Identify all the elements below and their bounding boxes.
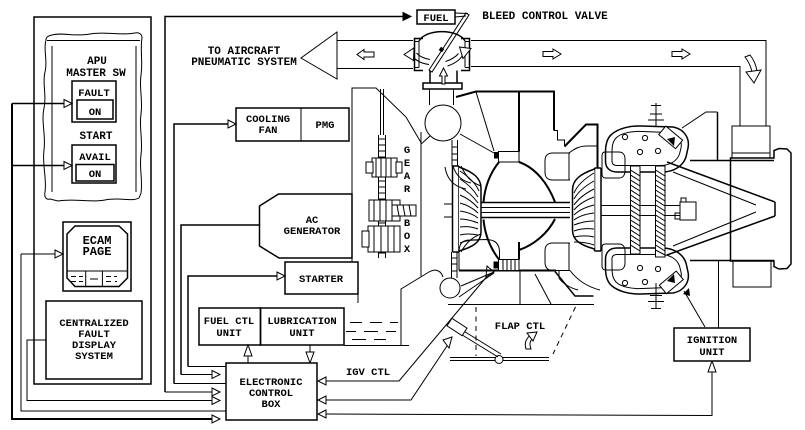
turbine section top casing: [690, 112, 774, 161]
gear train rack: [379, 135, 386, 258]
wire ECB to AC generator: [181, 225, 260, 379]
lower cap: [545, 243, 570, 271]
svg-text:ON: ON: [89, 169, 102, 181]
turbine disc 2: [656, 166, 666, 257]
valve curved arrow right: [446, 47, 472, 66]
duct end box: [732, 126, 770, 153]
svg-text:AVAIL: AVAIL: [79, 152, 111, 164]
upper shaft column: [452, 140, 458, 166]
turbine disc 1: [631, 166, 641, 254]
FUEL CTL UNIT box: [199, 308, 261, 345]
ECB wire from fuel ctl: [244, 345, 252, 363]
svg-text:PMG: PMG: [316, 120, 335, 132]
svg-text:UNIT: UNIT: [216, 328, 241, 340]
drain line: [519, 271, 521, 306]
lower pillar: [518, 242, 520, 260]
diffuser lower wall: [559, 271, 600, 291]
oil sump dashes: [344, 318, 409, 346]
lower fuel nozzle: [659, 271, 705, 327]
flap actuator head: [447, 318, 467, 335]
engine top casing: [456, 92, 598, 169]
svg-text:LUBRICATION: LUBRICATION: [267, 316, 336, 328]
diffuser scroll upper: [602, 152, 625, 178]
svg-text:FAULT: FAULT: [78, 88, 110, 100]
wire ECB to starter: [188, 272, 285, 367]
impeller 1 disc: [453, 166, 460, 252]
FAULT switch: [72, 81, 116, 122]
panel outer box: [34, 17, 151, 384]
APU MASTER SW label: [66, 56, 126, 80]
valve lever: [429, 13, 469, 72]
svg-text:B: B: [404, 218, 411, 230]
lower bearing box IGV: [499, 260, 520, 271]
svg-text:E: E: [404, 158, 410, 170]
ELECTRONIC CONTROL BOX: [226, 363, 317, 420]
START label: [79, 131, 112, 143]
svg-text:A: A: [404, 171, 411, 183]
svg-text:UNIT: UNIT: [699, 347, 724, 359]
FUEL box: [417, 10, 455, 25]
gear drive shaft top: [381, 89, 384, 135]
gear 2 center: [369, 200, 416, 221]
duct flow arrow 1: [543, 49, 561, 59]
upper hook curve: [484, 162, 500, 202]
upper bearing box: [499, 152, 520, 163]
engine bottom line: [448, 304, 594, 306]
flap ctl curved arrow: [525, 332, 537, 349]
svg-text:STARTER: STARTER: [299, 274, 344, 286]
svg-text:UNIT: UNIT: [289, 328, 314, 340]
wire to FAULT: [12, 100, 72, 108]
lower casing line: [459, 270, 556, 272]
wire trunk fault/avail to ECB: [12, 104, 220, 424]
valve up arrow: [440, 68, 448, 84]
wire to AVAIL: [12, 162, 72, 170]
ball to bearing diagonal: [460, 134, 494, 153]
gear 3: [362, 226, 400, 252]
FLAP CTL label: [495, 321, 545, 333]
upper bearing square: [494, 152, 500, 159]
svg-text:ON: ON: [89, 107, 102, 119]
ECB wire from lubrication: [306, 345, 314, 363]
IGV CTL label: [346, 367, 390, 379]
exhaust casing: [731, 149, 792, 270]
exhaust lower box: [733, 261, 771, 287]
svg-text:BOX: BOX: [262, 399, 282, 411]
turbine exit box: [675, 198, 696, 220]
FLAP wire: [318, 337, 452, 404]
svg-text:IGNITION: IGNITION: [687, 335, 737, 347]
AVAIL switch: [72, 145, 116, 183]
lower bearing square: [494, 262, 500, 269]
wire ECB to cooling fan: [174, 120, 236, 384]
wire to ECAM: [21, 250, 226, 411]
wire CFDS to ECB: [27, 340, 220, 405]
svg-text:FAN: FAN: [259, 125, 278, 137]
svg-text:MASTER SW: MASTER SW: [66, 68, 126, 80]
svg-text:GENERATOR: GENERATOR: [284, 226, 341, 238]
flap dashed outline: [476, 307, 576, 356]
gearbox right wall: [420, 132, 422, 276]
impeller 1 inlet lips: [444, 166, 481, 217]
svg-text:R: R: [404, 184, 411, 196]
LUBRICATION UNIT box: [261, 308, 345, 345]
duct bend curved arrow: [745, 55, 761, 83]
BLEED CONTROL VALVE label: [482, 11, 608, 23]
duct flow arrow 2: [672, 49, 690, 59]
impeller 1 blades: [459, 167, 481, 251]
impeller 2 disc: [595, 168, 602, 251]
upper igniter: [648, 103, 664, 127]
svg-text:START: START: [79, 131, 112, 143]
TO AIRCRAFT PNEUMATIC SYSTEM label: [191, 46, 297, 69]
turbine shaft stubs: [601, 206, 680, 216]
impeller 2 blades: [573, 169, 595, 249]
gear 1: [366, 158, 402, 177]
lower trumpet curve: [519, 219, 555, 250]
svg-text:FUEL CTL: FUEL CTL: [204, 316, 254, 328]
svg-text:PAGE: PAGE: [83, 245, 112, 259]
bleed valve body: [415, 32, 470, 105]
IGV pointer lines: [459, 272, 494, 297]
fuel line to valve lever: [455, 13, 468, 17]
svg-text:FUEL: FUEL: [423, 13, 448, 25]
svg-text:APU: APU: [87, 56, 107, 68]
panel inner frame: [47, 41, 140, 193]
gearbox housing left/top: [352, 88, 430, 262]
duct to valve: [337, 41, 413, 69]
IGNITION UNIT box: [674, 328, 750, 361]
flap surface: [450, 330, 549, 364]
drain diagonal: [535, 274, 551, 304]
valve curved arrow left: [404, 48, 430, 65]
inlet plenum ball: [425, 105, 461, 141]
svg-text:G: G: [404, 145, 410, 157]
diffuser scroll lower: [602, 244, 625, 270]
lower igniter: [648, 283, 664, 309]
svg-text:O: O: [404, 231, 410, 243]
torn paper edge: [43, 33, 142, 201]
wire ECB to FUEL box (top rail): [165, 13, 411, 397]
upper fuel nozzle: [659, 112, 718, 149]
diffuser upper wall: [569, 146, 598, 153]
casing diagonal to bearing: [476, 92, 494, 151]
lower bearing ball: [440, 278, 460, 298]
duct flow arrow left: [357, 50, 374, 60]
ignition lead 2: [718, 261, 720, 328]
svg-text:IGV CTL: IGV CTL: [346, 367, 390, 379]
lower blob duct wall: [459, 234, 500, 271]
main shaft: [481, 203, 570, 218]
upper trumpet curve: [519, 162, 555, 202]
upper pillar: [518, 92, 520, 152]
exhaust cone: [667, 162, 775, 255]
duct valve to right: [471, 41, 766, 127]
ignition wire: [318, 361, 716, 418]
gearbox bottom and sump edge: [358, 270, 443, 345]
GEAR BOX vertical label: [404, 145, 411, 256]
IGV wire: [318, 266, 494, 385]
turbine section bottom casing: [690, 260, 774, 262]
lower cowl: [555, 272, 594, 297]
svg-text:PNEUMATIC SYSTEM: PNEUMATIC SYSTEM: [191, 57, 297, 69]
upper cap: [545, 153, 570, 180]
svg-text:FLAP CTL: FLAP CTL: [495, 321, 545, 333]
COOLING FAN / PMG boxes: [236, 108, 349, 141]
lower hook curve: [484, 220, 500, 260]
ECAM display: [63, 222, 131, 291]
lower shaft column: [452, 252, 458, 278]
svg-text:BLEED CONTROL VALVE: BLEED CONTROL VALVE: [482, 11, 608, 23]
svg-text:X: X: [404, 244, 411, 256]
combustor lower ear: [606, 248, 689, 294]
AC GENERATOR octagon: [260, 194, 353, 258]
svg-text:SYSTEM: SYSTEM: [75, 351, 113, 363]
CFDS box: [46, 301, 142, 379]
combustor upper ear: [606, 126, 689, 172]
STARTER box: [285, 262, 358, 294]
pneumatic outlet triangle: [301, 32, 337, 79]
